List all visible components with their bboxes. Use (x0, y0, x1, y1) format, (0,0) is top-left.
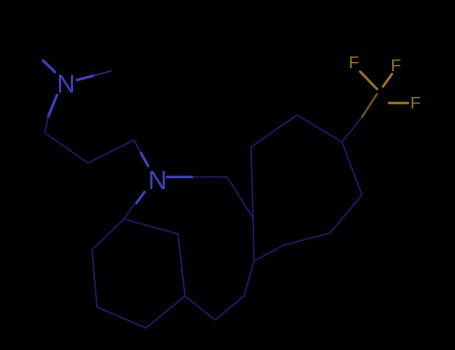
wire: bond N2 to CH2 B1 (right), N half (167, 176, 193, 179)
wire: bond N2 to CH2 B1 (right), C half (193, 176, 227, 178)
right ring: edge P4-P5 (330, 195, 362, 233)
bond CF3 carbon to F3 (389, 102, 408, 104)
svg-text:F: F (349, 53, 359, 72)
right ring: edge P6-P8 (254, 245, 284, 261)
wire: bond N1 down to chain C1, N half (48, 95, 57, 117)
bridge: bond W1-W2 (215, 296, 244, 320)
svg-text:N: N (148, 165, 167, 195)
wire: methyl bond CH3 to N1 (upper-left) (43, 61, 55, 73)
right ring: edge P8-P7 (253, 218, 254, 261)
bridge: bond W2-P8 (244, 261, 254, 296)
right ring: edge P7-P1 (vertical) (251, 147, 253, 218)
wire: chain bond C3 to N2, C half (134, 140, 141, 153)
wire: methyl bond N1 to CH3 (right), N half (77, 76, 94, 81)
right ring: edge P2-P3 (297, 115, 342, 142)
wire: bond N2 to ring A1 (down-left), N half (137, 192, 145, 203)
svg-text:F: F (391, 56, 401, 75)
right ring: edge P1-P2 (251, 115, 297, 147)
wire: bond N1 chain C1, C half (45, 117, 48, 133)
bond CF3 carbon to F1 (360, 72, 377, 90)
wire: chain bond C3 to N2, N half (141, 153, 148, 166)
wire: bond N2 to ring A1 (down-left), C half (124, 203, 135, 219)
left ring: edge A1-V2 (92, 219, 124, 250)
left ring: edge V6-A1 (124, 219, 178, 234)
left ring: edge V2-V3 (92, 250, 97, 307)
wire: methyl bond N1 to CH3 (right), C half (94, 71, 111, 76)
bridge: bond V5-W1 (185, 296, 215, 320)
left ring: edge V4-V5 (146, 296, 185, 328)
svg-text:F: F (410, 94, 420, 113)
right ring: bond B1-P7 (227, 177, 253, 218)
bond CF3 carbon to F2 (383, 74, 392, 87)
bond ring P3 to CF3 carbon, ring half (342, 117, 362, 142)
right ring: edge P3-P4 (342, 142, 362, 195)
left ring: edge V3-V4 (97, 307, 146, 328)
svg-text:N: N (57, 71, 75, 99)
wire: chain bond C1-C2 (45, 133, 88, 163)
right ring: edge P5-P6 (284, 233, 330, 245)
left ring: edge V5-V6 (178, 234, 185, 296)
wire: chain bond C2-C3 (88, 140, 134, 163)
bond ring P3 to CF3 carbon, upper half (362, 94, 377, 117)
